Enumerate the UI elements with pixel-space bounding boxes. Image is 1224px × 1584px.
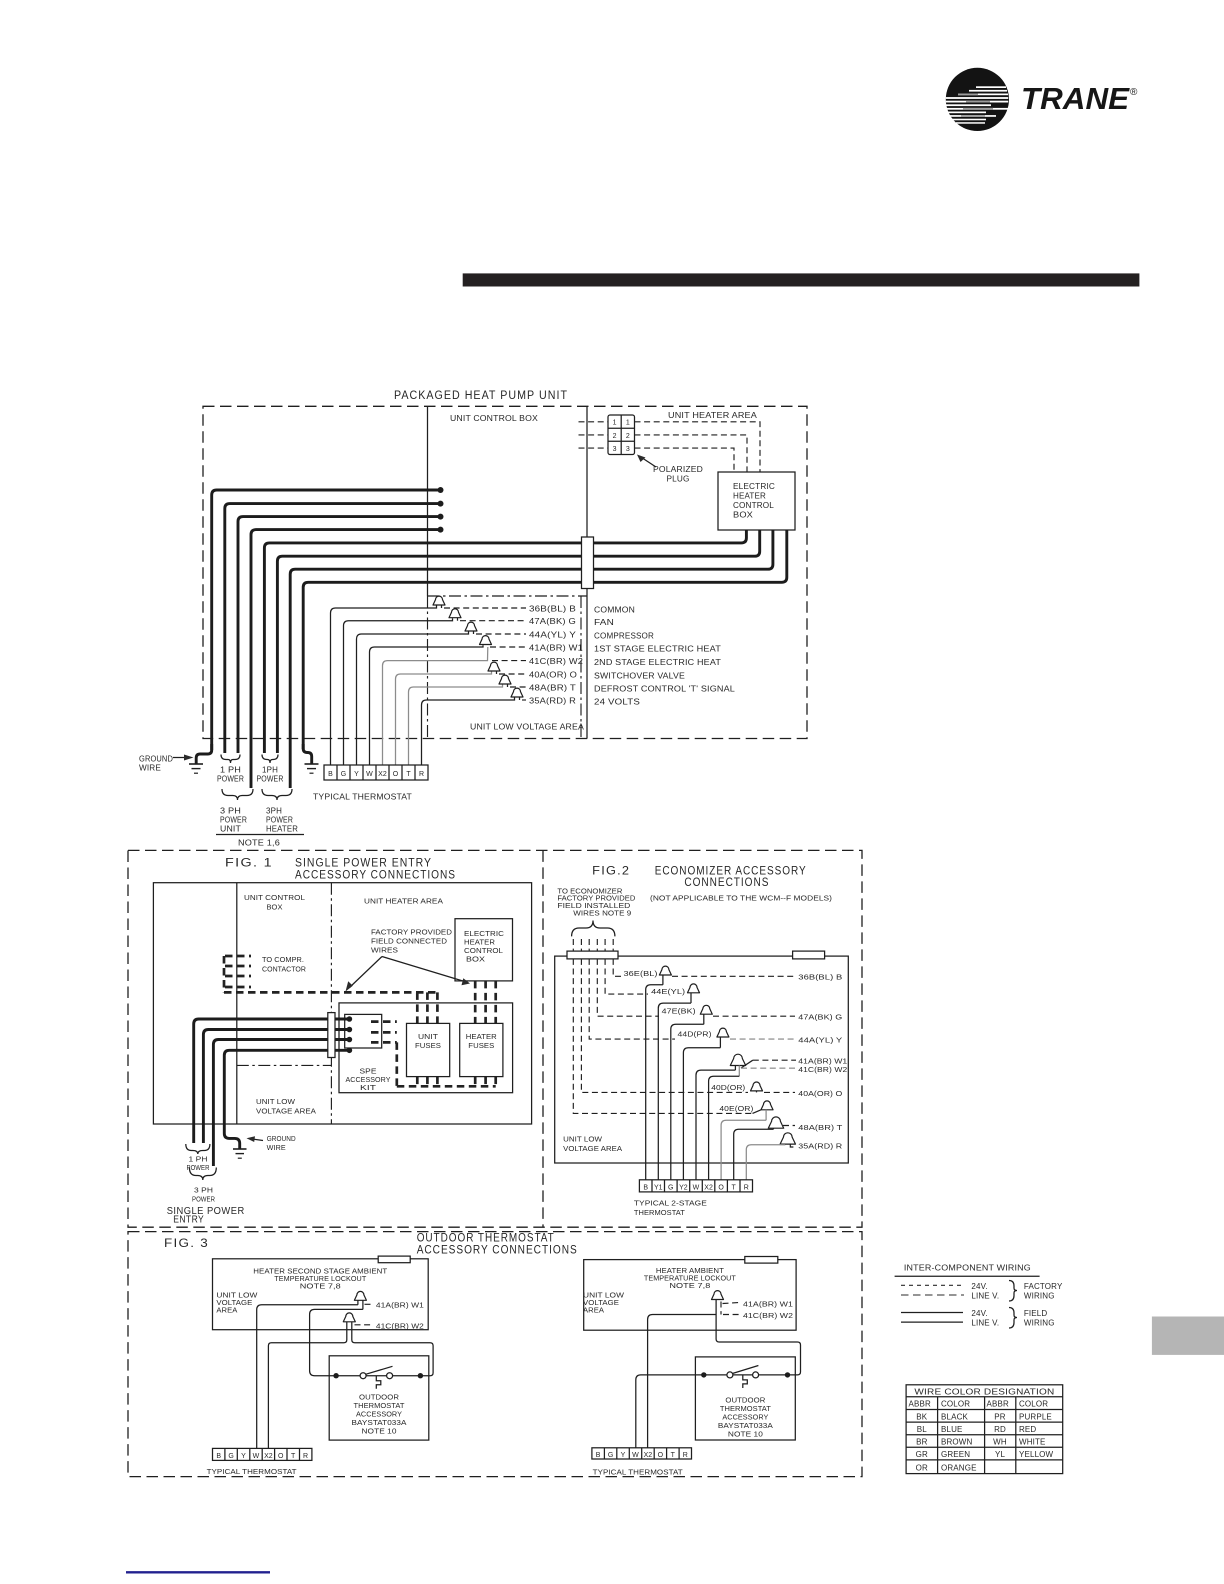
svg-text:Y: Y bbox=[354, 771, 359, 778]
svg-text:24V.: 24V. bbox=[971, 1309, 987, 1318]
wire nut row2 bbox=[449, 609, 461, 618]
svg-text:G: G bbox=[668, 1185, 674, 1192]
power wire L2 bbox=[225, 504, 441, 753]
right lockout box bbox=[584, 1260, 796, 1331]
conduit bushing on control box wall bbox=[582, 537, 594, 589]
svg-text:1 PH: 1 PH bbox=[220, 766, 241, 775]
wire nut to switch right loop bbox=[716, 1302, 800, 1375]
wire nut1 to stat W bbox=[257, 1305, 358, 1449]
stat wire Y2 fig2 bbox=[683, 1048, 720, 1180]
unit control box left wall lower dashed bbox=[427, 596, 429, 739]
svg-text:UNIT HEATER AREA: UNIT HEATER AREA bbox=[668, 411, 758, 420]
wire plug pin1 to heater box bbox=[635, 422, 761, 472]
41C row dashes bbox=[741, 1067, 796, 1069]
heater power wire H2 bbox=[277, 530, 759, 753]
economizer wire 40D drop bbox=[581, 959, 748, 1093]
wire color designation table bbox=[906, 1385, 1063, 1474]
svg-text:SPE: SPE bbox=[360, 1069, 377, 1076]
svg-text:TEMPERATURE LOCKOUT: TEMPERATURE LOCKOUT bbox=[274, 1276, 367, 1283]
brace 3PH POWER HEATER bbox=[262, 789, 292, 800]
low voltage dash-dot boundary fig1 bbox=[237, 1064, 332, 1066]
svg-text:AREA: AREA bbox=[583, 1308, 604, 1315]
svg-text:Y2: Y2 bbox=[679, 1185, 688, 1192]
svg-text:ABBR: ABBR bbox=[909, 1400, 931, 1409]
note rule bbox=[216, 834, 304, 836]
svg-text:FACTORY PROVIDED: FACTORY PROVIDED bbox=[371, 930, 452, 937]
heater power wire H4 bbox=[303, 530, 787, 749]
svg-text:W: W bbox=[253, 1453, 260, 1460]
svg-text:FUSES: FUSES bbox=[468, 1043, 494, 1050]
svg-text:THERMOSTAT: THERMOSTAT bbox=[634, 1210, 686, 1217]
svg-text:B: B bbox=[643, 1185, 648, 1192]
wire nut row6 bbox=[488, 662, 500, 671]
brace 3 PH POWER UNIT bbox=[222, 789, 253, 800]
big nut W1/W2 bbox=[730, 1054, 745, 1065]
outdoor thermostat switch box right bbox=[695, 1357, 795, 1440]
svg-text:BLUE: BLUE bbox=[941, 1425, 963, 1434]
svg-text:44A(YL) Y: 44A(YL) Y bbox=[529, 631, 577, 640]
svg-text:UNIT LOW: UNIT LOW bbox=[563, 1137, 602, 1144]
svg-text:BL: BL bbox=[917, 1425, 927, 1434]
svg-text:36E(BL): 36E(BL) bbox=[624, 971, 658, 978]
svg-text:NOTE 1,6: NOTE 1,6 bbox=[238, 839, 280, 848]
SPE bottom rail bbox=[397, 1085, 496, 1088]
svg-text:24 VOLTS: 24 VOLTS bbox=[594, 698, 640, 707]
svg-text:O: O bbox=[393, 771, 399, 778]
svg-text:(NOT APPLICABLE TO THE WCM--F: (NOT APPLICABLE TO THE WCM--F MODELS) bbox=[650, 896, 832, 903]
heater power wire H1 bbox=[264, 530, 746, 753]
svg-text:HEATER SECOND STAGE AMBIENT: HEATER SECOND STAGE AMBIENT bbox=[253, 1269, 388, 1276]
svg-text:G: G bbox=[341, 771, 347, 778]
economizer leads bbox=[573, 939, 613, 951]
svg-text:CONNECTIONS: CONNECTIONS bbox=[684, 877, 769, 889]
svg-text:UNIT LOW: UNIT LOW bbox=[216, 1293, 257, 1300]
svg-text:COMMON: COMMON bbox=[594, 606, 635, 615]
fig1 unit enclosure bbox=[153, 883, 531, 1124]
svg-text:1PH: 1PH bbox=[262, 766, 278, 775]
svg-text:T: T bbox=[732, 1185, 737, 1192]
plug pin3 stub left bbox=[579, 447, 609, 449]
47A row dashes bbox=[713, 1015, 795, 1017]
svg-text:OUTDOOR: OUTDOOR bbox=[725, 1398, 765, 1405]
svg-text:TYPICAL THERMOSTAT: TYPICAL THERMOSTAT bbox=[593, 1470, 684, 1477]
svg-text:40A(OR) O: 40A(OR) O bbox=[798, 1091, 843, 1098]
svg-text:RED: RED bbox=[1019, 1425, 1036, 1434]
brace 1 PH POWER (unit) bbox=[221, 755, 240, 764]
svg-text:CONTROL: CONTROL bbox=[464, 948, 503, 955]
svg-text:1: 1 bbox=[626, 420, 630, 427]
left lockout box bbox=[213, 1259, 429, 1330]
svg-text:40A(OR) O: 40A(OR) O bbox=[529, 671, 577, 680]
economizer brace bbox=[572, 921, 615, 937]
legend brace field bbox=[1009, 1308, 1017, 1329]
packaged unit dashed enclosure bbox=[203, 406, 807, 738]
factory wires callout arrow right bbox=[382, 957, 465, 982]
legend 24V field sample bbox=[901, 1312, 963, 1314]
svg-text:LINE V.: LINE V. bbox=[971, 1291, 999, 1300]
svg-text:ELECTRIC: ELECTRIC bbox=[464, 931, 504, 938]
svg-text:48A(BR) T: 48A(BR) T bbox=[529, 684, 576, 693]
svg-text:BAYSTAT033A: BAYSTAT033A bbox=[352, 1420, 407, 1427]
Trane logo circle bbox=[946, 68, 1009, 131]
svg-text:41A(BR) W1: 41A(BR) W1 bbox=[376, 1302, 424, 1309]
svg-text:COMPRESSOR: COMPRESSOR bbox=[594, 632, 654, 641]
svg-text:ACCESSORY CONNECTIONS: ACCESSORY CONNECTIONS bbox=[417, 1245, 578, 1257]
plug pin1 stub left bbox=[579, 421, 609, 423]
svg-text:TO ECONOMIZER: TO ECONOMIZER bbox=[557, 888, 622, 895]
svg-text:HEATER: HEATER bbox=[266, 825, 298, 834]
field connected rail bbox=[224, 991, 437, 994]
economizer wire 36E drop bbox=[613, 959, 621, 976]
SPE connector block bbox=[345, 1014, 382, 1048]
footer rule bbox=[126, 1571, 270, 1573]
stat wire Y1 fig2 bbox=[658, 1003, 691, 1180]
36B row dashes bbox=[672, 975, 795, 977]
svg-text:THERMOSTAT: THERMOSTAT bbox=[354, 1403, 406, 1410]
stat wire R bbox=[422, 698, 515, 766]
svg-text:3: 3 bbox=[613, 446, 617, 453]
svg-text:47A(BK) G: 47A(BK) G bbox=[798, 1015, 842, 1022]
wire switch to stat W right bbox=[636, 1375, 704, 1448]
svg-text:NOTE 10: NOTE 10 bbox=[362, 1429, 397, 1436]
svg-text:T: T bbox=[406, 771, 411, 778]
svg-text:BOX: BOX bbox=[733, 511, 754, 520]
svg-text:X2: X2 bbox=[644, 1452, 653, 1459]
svg-text:VOLTAGE: VOLTAGE bbox=[583, 1300, 619, 1307]
svg-text:HEATER: HEATER bbox=[466, 1034, 497, 1041]
svg-text:48A(BR) T: 48A(BR) T bbox=[798, 1125, 843, 1132]
svg-text:UNIT HEATER AREA: UNIT HEATER AREA bbox=[364, 899, 443, 906]
fig3 outer dashed enclosure bbox=[128, 1232, 862, 1477]
economizer wire 44E drop bbox=[605, 959, 648, 994]
svg-text:3 PH: 3 PH bbox=[220, 807, 241, 816]
40A row dashes bbox=[764, 1091, 795, 1093]
svg-text:W: W bbox=[366, 771, 373, 778]
fig1-fig2 divider bbox=[542, 850, 544, 1227]
unit control box left wall bbox=[427, 406, 429, 596]
thermostat terminal strip bbox=[324, 765, 428, 780]
legend line-v field sample bbox=[901, 1321, 963, 1323]
svg-text:FAN: FAN bbox=[594, 618, 614, 627]
svg-text:NOTE 10: NOTE 10 bbox=[728, 1432, 763, 1439]
svg-text:44A(YL) Y: 44A(YL) Y bbox=[798, 1038, 842, 1045]
wire nut row8 bbox=[511, 688, 523, 697]
legend brace factory bbox=[1009, 1281, 1017, 1302]
heater area wall bbox=[330, 883, 332, 1124]
svg-text:WH: WH bbox=[993, 1438, 1007, 1447]
35A stub dash bbox=[790, 1144, 795, 1147]
ground wire lead-in bbox=[196, 744, 212, 764]
wire nut2 to stat X2 bbox=[268, 1325, 346, 1448]
nut 48A bbox=[768, 1117, 783, 1128]
41A row dashes bbox=[753, 1059, 796, 1061]
svg-text:24V.: 24V. bbox=[971, 1282, 987, 1291]
stat wire G fig2 bbox=[671, 1024, 704, 1180]
svg-text:O: O bbox=[658, 1452, 664, 1459]
ground symbol fig1 bbox=[233, 1149, 247, 1158]
wire nut2 to switch right bbox=[352, 1325, 433, 1376]
svg-text:B: B bbox=[216, 1453, 221, 1460]
svg-text:W: W bbox=[632, 1452, 639, 1459]
svg-text:41C(BR) W2: 41C(BR) W2 bbox=[376, 1324, 424, 1331]
conduit bushing fig1 bbox=[328, 1013, 335, 1058]
stat wire T fig2 bbox=[734, 1129, 774, 1180]
power wire F4 with ground bbox=[224, 1050, 349, 1149]
svg-text:ACCESSORY: ACCESSORY bbox=[722, 1415, 768, 1422]
svg-text:WIRES NOTE 9: WIRES NOTE 9 bbox=[573, 911, 631, 918]
svg-text:YELLOW: YELLOW bbox=[1019, 1450, 1054, 1459]
svg-text:41C(BR) W2: 41C(BR) W2 bbox=[743, 1313, 793, 1320]
svg-text:SWITCHOVER VALVE: SWITCHOVER VALVE bbox=[594, 672, 685, 681]
heater fuses box bbox=[460, 1023, 503, 1076]
svg-text:Y: Y bbox=[621, 1452, 626, 1459]
wire plug pin2 to heater box bbox=[635, 435, 748, 472]
svg-text:FACTORY: FACTORY bbox=[1024, 1282, 1063, 1291]
brace 1 PH POWER fig1 bbox=[186, 1144, 210, 1154]
svg-text:GR: GR bbox=[916, 1450, 928, 1459]
svg-text:PURPLE: PURPLE bbox=[1019, 1412, 1052, 1421]
svg-text:X2: X2 bbox=[264, 1453, 273, 1460]
stat wire O fig2 bbox=[721, 1120, 766, 1180]
svg-text:3: 3 bbox=[626, 446, 630, 453]
svg-text:40E(OR): 40E(OR) bbox=[719, 1106, 753, 1113]
stat wire X2 fig2 bbox=[709, 1076, 740, 1180]
svg-text:1ST STAGE ELECTRIC HEAT: 1ST STAGE ELECTRIC HEAT bbox=[594, 645, 721, 654]
svg-text:OUTDOOR THERMOSTAT: OUTDOOR THERMOSTAT bbox=[417, 1233, 555, 1245]
nut 41C left bbox=[343, 1313, 355, 1322]
svg-text:SINGLE POWER ENTRY: SINGLE POWER ENTRY bbox=[295, 858, 432, 870]
svg-text:BROWN: BROWN bbox=[941, 1438, 972, 1447]
drops to unit fuses bbox=[417, 981, 495, 1024]
svg-text:B: B bbox=[328, 771, 333, 778]
svg-text:UNIT LOW VOLTAGE AREA: UNIT LOW VOLTAGE AREA bbox=[470, 723, 585, 732]
svg-text:POLARIZED: POLARIZED bbox=[653, 465, 703, 474]
nut 44D bbox=[717, 1028, 729, 1037]
svg-text:AREA: AREA bbox=[216, 1308, 237, 1315]
svg-text:®: ® bbox=[1130, 87, 1138, 98]
svg-text:ACCESSORY CONNECTIONS: ACCESSORY CONNECTIONS bbox=[295, 870, 456, 882]
electric heater control box bbox=[718, 472, 795, 530]
svg-text:TYPICAL THERMOSTAT: TYPICAL THERMOSTAT bbox=[207, 1469, 298, 1476]
svg-text:UNIT CONTROL: UNIT CONTROL bbox=[244, 895, 305, 902]
svg-text:WIRE: WIRE bbox=[267, 1145, 286, 1152]
power wire F3 bbox=[213, 1040, 349, 1167]
svg-text:BK: BK bbox=[916, 1412, 927, 1421]
svg-text:Y: Y bbox=[241, 1453, 246, 1460]
svg-text:ENTRY: ENTRY bbox=[173, 1215, 204, 1226]
svg-text:VOLTAGE AREA: VOLTAGE AREA bbox=[563, 1146, 622, 1153]
stat wire O bbox=[396, 672, 492, 766]
svg-text:TRANE: TRANE bbox=[1021, 81, 1130, 116]
svg-text:36B(BL) B: 36B(BL) B bbox=[529, 605, 576, 614]
brace 3 PH POWER fig1 bbox=[189, 1168, 216, 1181]
unit fuses box bbox=[407, 1023, 450, 1076]
svg-text:OUTDOOR: OUTDOOR bbox=[359, 1395, 399, 1402]
svg-text:R: R bbox=[303, 1453, 308, 1460]
economizer wire 40E drop bbox=[573, 959, 752, 1114]
svg-text:UNIT: UNIT bbox=[418, 1034, 439, 1041]
ground symbol G1 bbox=[189, 764, 203, 773]
svg-text:NOTE 7,8: NOTE 7,8 bbox=[300, 1284, 341, 1291]
economizer wire 44D drop bbox=[589, 959, 675, 1039]
svg-text:41A(BR) W1: 41A(BR) W1 bbox=[529, 644, 583, 653]
svg-text:VOLTAGE: VOLTAGE bbox=[216, 1300, 252, 1307]
svg-text:WIRING: WIRING bbox=[1024, 1291, 1055, 1300]
factory wires callout arrow left bbox=[350, 957, 383, 988]
svg-text:HEATER AMBIENT: HEATER AMBIENT bbox=[656, 1268, 725, 1275]
svg-text:WIRE: WIRE bbox=[139, 764, 161, 773]
svg-text:PACKAGED HEAT PUMP UNIT: PACKAGED HEAT PUMP UNIT bbox=[394, 390, 568, 402]
black header bar bbox=[463, 273, 1140, 286]
economizer wire 47E drop bbox=[597, 959, 659, 1016]
svg-text:ELECTRIC: ELECTRIC bbox=[733, 482, 775, 491]
svg-text:THERMOSTAT: THERMOSTAT bbox=[720, 1406, 772, 1413]
svg-text:1 PH: 1 PH bbox=[189, 1157, 208, 1164]
svg-text:TYPICAL 2-STAGE: TYPICAL 2-STAGE bbox=[634, 1201, 707, 1208]
wire nut row7 bbox=[499, 675, 511, 684]
svg-text:R: R bbox=[744, 1185, 749, 1192]
electric heater control box (fig1) bbox=[455, 919, 513, 981]
svg-text:3 PH: 3 PH bbox=[194, 1188, 213, 1195]
wire plug pin3 to heater box bbox=[635, 448, 735, 472]
48A row dashes bbox=[783, 1125, 795, 1127]
unit control box right wall bbox=[586, 406, 588, 738]
SPE accessory kit box bbox=[339, 1003, 513, 1093]
ground symbol G2 bbox=[305, 764, 319, 773]
plug pin2 stub left bbox=[579, 434, 609, 436]
svg-text:CONTACTOR: CONTACTOR bbox=[262, 967, 306, 974]
stat wire B fig2 bbox=[646, 985, 663, 1180]
svg-text:2: 2 bbox=[626, 433, 630, 440]
svg-text:KIT: KIT bbox=[360, 1085, 377, 1092]
stat wire R fig2 bbox=[746, 1145, 785, 1180]
svg-text:BOX: BOX bbox=[466, 957, 485, 964]
svg-text:PR: PR bbox=[994, 1412, 1005, 1421]
svg-text:FUSES: FUSES bbox=[415, 1043, 441, 1050]
svg-text:FIG. 1: FIG. 1 bbox=[225, 858, 273, 870]
svg-text:36B(BL) B: 36B(BL) B bbox=[798, 975, 842, 982]
svg-text:COLOR: COLOR bbox=[941, 1400, 970, 1409]
svg-text:BAYSTAT033A: BAYSTAT033A bbox=[718, 1423, 773, 1430]
svg-text:R: R bbox=[683, 1452, 688, 1459]
svg-text:GREEN: GREEN bbox=[941, 1450, 970, 1459]
nut 41A left bbox=[354, 1291, 366, 1300]
power wire F2 bbox=[203, 1030, 349, 1144]
svg-text:FIELD INSTALLED: FIELD INSTALLED bbox=[557, 903, 630, 910]
svg-text:RD: RD bbox=[994, 1425, 1006, 1434]
svg-text:X2: X2 bbox=[378, 771, 387, 778]
svg-text:2: 2 bbox=[613, 433, 617, 440]
nut 47E bbox=[700, 1005, 712, 1014]
svg-text:GROUND: GROUND bbox=[139, 755, 173, 764]
wire nut row1 bbox=[433, 596, 445, 605]
wire nut1 to switch left bbox=[310, 1309, 363, 1375]
svg-text:HEATER: HEATER bbox=[464, 940, 495, 947]
stat wire G bbox=[344, 618, 453, 765]
nut 40E bbox=[761, 1101, 773, 1110]
svg-text:FACTORY PROVIDED: FACTORY PROVIDED bbox=[557, 896, 635, 903]
svg-text:INTER-COMPONENT WIRING: INTER-COMPONENT WIRING bbox=[904, 1264, 1031, 1273]
svg-text:UNIT: UNIT bbox=[220, 825, 241, 834]
svg-text:2ND STAGE ELECTRIC HEAT: 2ND STAGE ELECTRIC HEAT bbox=[594, 658, 721, 667]
heater ground wire bbox=[303, 744, 312, 764]
2-stage thermostat strip bbox=[639, 1180, 752, 1192]
svg-text:WIRING: WIRING bbox=[1024, 1318, 1055, 1327]
polarized plug P1 bbox=[608, 415, 635, 455]
svg-text:DEFROST CONTROL 'T' SIGNAL: DEFROST CONTROL 'T' SIGNAL bbox=[594, 685, 735, 694]
svg-text:3PH: 3PH bbox=[266, 807, 282, 816]
44A row dashes bbox=[730, 1038, 795, 1040]
svg-text:FIG. 3: FIG. 3 bbox=[164, 1238, 209, 1250]
power wire L1 bbox=[212, 490, 441, 750]
nut 40D bbox=[751, 1082, 763, 1091]
svg-text:35A(RD) R: 35A(RD) R bbox=[798, 1144, 842, 1151]
svg-text:BLACK: BLACK bbox=[941, 1412, 968, 1421]
stat wire B bbox=[331, 606, 437, 766]
svg-text:G: G bbox=[228, 1453, 234, 1460]
svg-text:POWER: POWER bbox=[257, 775, 284, 784]
stat wire X2 (W2) bbox=[383, 647, 488, 765]
W1 diagonal tap bbox=[741, 1060, 753, 1068]
svg-text:FIG.2: FIG.2 bbox=[592, 866, 630, 878]
nut 41A/41C right bbox=[712, 1291, 724, 1300]
svg-text:35A(RD) R: 35A(RD) R bbox=[529, 697, 576, 706]
power wire L4 bbox=[251, 530, 441, 788]
svg-text:LINE V.: LINE V. bbox=[971, 1318, 999, 1327]
svg-text:CONTROL: CONTROL bbox=[733, 501, 774, 510]
svg-text:TEMPERATURE LOCKOUT: TEMPERATURE LOCKOUT bbox=[644, 1276, 737, 1283]
svg-text:41C(BR) W2: 41C(BR) W2 bbox=[798, 1067, 847, 1074]
svg-text:COLOR: COLOR bbox=[1019, 1400, 1048, 1409]
svg-text:POWER: POWER bbox=[217, 775, 244, 784]
svg-text:WHITE: WHITE bbox=[1019, 1438, 1046, 1447]
svg-text:TO COMPR.: TO COMPR. bbox=[262, 957, 304, 964]
svg-text:FIELD: FIELD bbox=[1024, 1309, 1047, 1318]
legend line-v factory sample bbox=[901, 1294, 964, 1296]
svg-text:POWER: POWER bbox=[220, 816, 247, 825]
svg-text:47E(BK): 47E(BK) bbox=[662, 1008, 696, 1015]
svg-text:UNIT CONTROL BOX: UNIT CONTROL BOX bbox=[450, 414, 539, 423]
stat wire W (W1) bbox=[370, 645, 484, 765]
svg-text:WIRES: WIRES bbox=[371, 948, 398, 955]
control box wall bbox=[236, 883, 238, 1124]
svg-text:B: B bbox=[596, 1452, 601, 1459]
power wire L3 bbox=[238, 517, 441, 753]
svg-text:O: O bbox=[718, 1185, 724, 1192]
svg-text:YL: YL bbox=[995, 1450, 1005, 1459]
conduit bushing left bbox=[567, 951, 618, 959]
fig2 unit low voltage enclosure bbox=[555, 956, 849, 1163]
gray page tab bbox=[1152, 1317, 1224, 1355]
svg-text:R: R bbox=[419, 771, 424, 778]
stat wire Y bbox=[357, 632, 469, 766]
svg-text:1: 1 bbox=[613, 420, 617, 427]
svg-text:ECONOMIZER ACCESSORY: ECONOMIZER ACCESSORY bbox=[655, 866, 807, 878]
svg-text:ACCESSORY: ACCESSORY bbox=[346, 1077, 391, 1084]
svg-text:WIRE COLOR DESIGNATION: WIRE COLOR DESIGNATION bbox=[914, 1388, 1054, 1397]
svg-text:HEATER: HEATER bbox=[733, 492, 766, 501]
wire nut row4 shared W1/W2 bbox=[480, 636, 492, 645]
svg-text:G: G bbox=[608, 1452, 614, 1459]
switch right bbox=[701, 1366, 790, 1389]
svg-text:41A(BR) W1: 41A(BR) W1 bbox=[798, 1058, 847, 1065]
svg-text:ACCESSORY: ACCESSORY bbox=[356, 1412, 402, 1419]
svg-text:ABBR: ABBR bbox=[987, 1400, 1009, 1409]
conduit bushing right bbox=[793, 951, 825, 959]
thermostat strip fig3 left bbox=[213, 1448, 312, 1460]
to compressor contactor stubs bbox=[224, 956, 251, 992]
svg-text:O: O bbox=[278, 1453, 284, 1460]
